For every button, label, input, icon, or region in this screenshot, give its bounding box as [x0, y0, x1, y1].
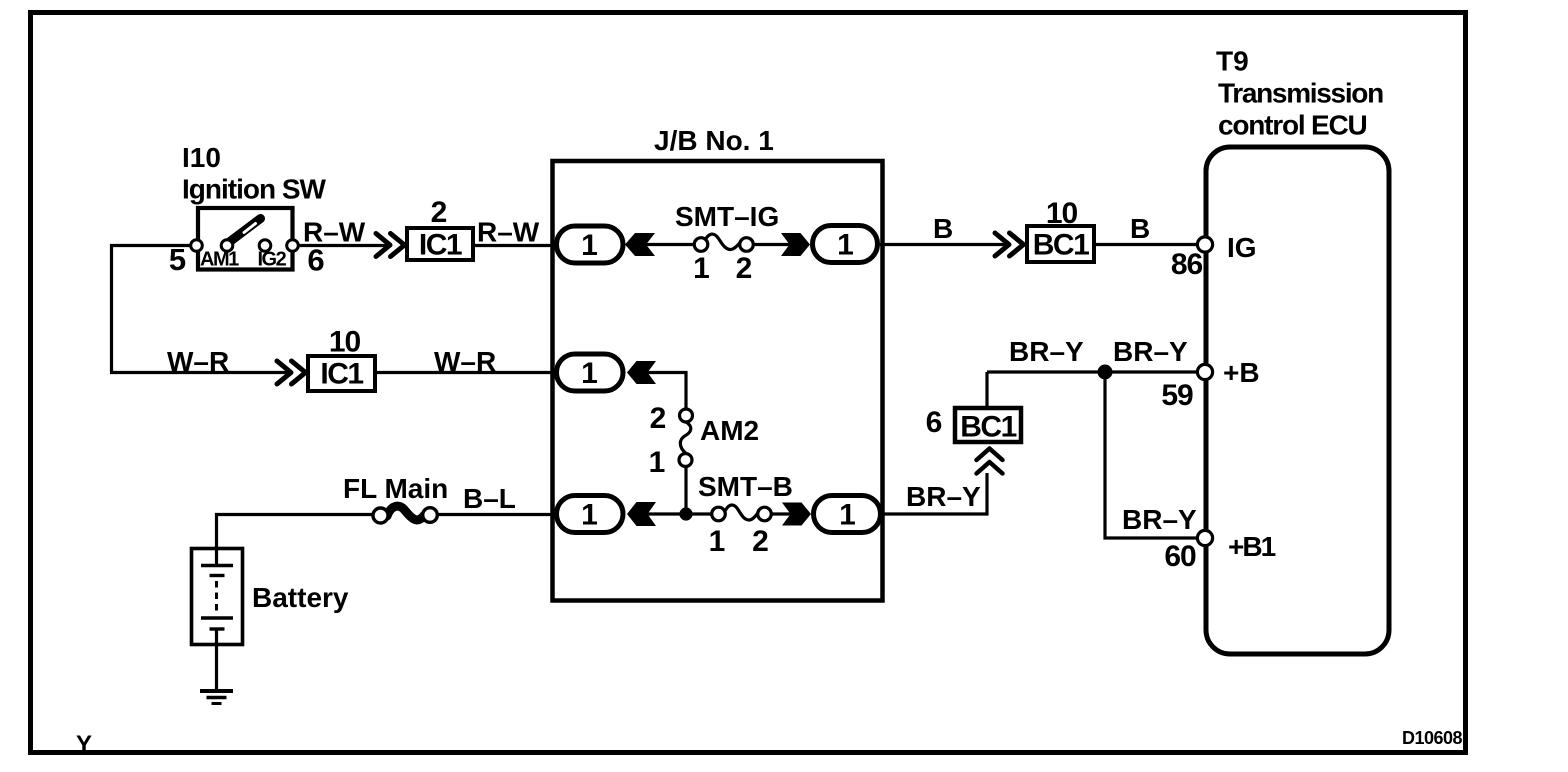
svg-text:J/B No. 1: J/B No. 1	[654, 125, 774, 156]
junction block J/B No. 1	[553, 161, 883, 601]
fuse SMT-IG	[694, 234, 753, 251]
svg-text:2: 2	[752, 525, 768, 558]
wire: J/B oval row3 to SMT-B fuse	[640, 512, 713, 515]
arrow into oval row1 left	[625, 233, 655, 256]
fusible link FL Main	[373, 506, 437, 523]
arrow into oval row3 left	[627, 502, 656, 526]
wire: BC1 connector to ECU pin IG (B)	[1094, 243, 1200, 246]
junction: BR-Y node	[1098, 365, 1113, 380]
svg-text:W–R: W–R	[167, 346, 229, 377]
switch terminal pin 6	[287, 240, 299, 252]
connector BC1 (6)	[955, 408, 1021, 444]
connector IC1 (row 2)	[308, 356, 375, 391]
fuse AM2	[679, 409, 693, 467]
wire: AM2 fuse to SMT-B junction	[684, 465, 687, 514]
connector BC1 (row 1)	[1027, 226, 1094, 262]
svg-text:1: 1	[581, 499, 597, 532]
svg-text:2: 2	[431, 196, 447, 229]
svg-text:2: 2	[650, 402, 666, 435]
svg-text:BR–Y: BR–Y	[1009, 336, 1084, 367]
wire: W-R from IC1 to J/B	[375, 371, 560, 374]
J/B connector oval (row 1 right)	[813, 226, 878, 263]
battery	[192, 549, 243, 645]
ECU T9 transmission control ECU body	[1206, 147, 1389, 654]
wire: switch IG2 to pin 6	[265, 244, 292, 247]
wire: battery negative to ground	[215, 629, 218, 690]
wire: J/B to BC1 connector 6 (BR-Y)	[880, 473, 987, 514]
svg-text:B: B	[933, 213, 953, 244]
svg-text:IG: IG	[1227, 232, 1257, 263]
svg-text:1: 1	[581, 229, 597, 262]
svg-text:IC1: IC1	[419, 229, 462, 262]
svg-text:T9: T9	[1216, 46, 1249, 77]
svg-text:D10608: D10608	[1402, 728, 1463, 748]
svg-text:W–R: W–R	[434, 346, 496, 377]
svg-text:5: 5	[169, 242, 186, 277]
wire: W-R row to IC1 connector	[110, 371, 290, 374]
connector chevron into IC1 (2)	[376, 234, 405, 257]
ground	[200, 691, 233, 704]
connector IC1 (row 1)	[407, 228, 473, 262]
connector chevron into BC1 (6) pointing up	[977, 449, 1003, 474]
svg-text:AM1: AM1	[200, 249, 239, 271]
wire: FL Main to J/B (B-L)	[436, 513, 560, 516]
switch lever	[228, 219, 261, 244]
svg-text:86: 86	[1171, 248, 1203, 281]
svg-text:1: 1	[709, 525, 725, 558]
ignition switch I10 body	[198, 208, 293, 270]
svg-text:60: 60	[1164, 540, 1196, 573]
svg-text:R–W: R–W	[303, 217, 366, 248]
svg-text:BC1: BC1	[960, 411, 1016, 444]
svg-text:10: 10	[329, 326, 361, 359]
connector chevron into BC1 (10)	[995, 233, 1024, 256]
arrow into oval row1 right	[781, 233, 810, 256]
junction: AM2 / SMT-B node	[679, 507, 692, 520]
wire: J/B to BC1 connector (B)	[880, 243, 1008, 246]
wire: switch pin 6 to IC1 connector (R-W)	[292, 244, 389, 247]
svg-text:6: 6	[926, 406, 942, 439]
svg-text:59: 59	[1161, 379, 1193, 412]
svg-text:+B1: +B1	[1228, 531, 1276, 562]
J/B connector oval (row 3 left)	[557, 496, 624, 533]
connector chevron into IC1 (10)	[277, 361, 306, 384]
switch terminal pin 5	[191, 240, 203, 252]
svg-text:B: B	[1130, 213, 1150, 244]
svg-text:+B: +B	[1223, 357, 1260, 388]
wire: ignition SW pin 5 left then down to W-R row	[112, 246, 197, 373]
switch terminal IG2	[259, 240, 271, 252]
wire: IC1 to J/B No.1 (R-W)	[473, 244, 560, 247]
svg-text:AM2: AM2	[700, 415, 759, 446]
wire: BC1 connector 6 up to BR-Y node	[985, 372, 988, 407]
svg-text:1: 1	[649, 446, 665, 479]
svg-text:IG2: IG2	[258, 249, 287, 271]
wire: BR-Y to ECU pin +B	[987, 370, 1200, 373]
svg-text:I10: I10	[182, 142, 221, 173]
svg-text:2: 2	[736, 252, 752, 285]
svg-text:SMT–B: SMT–B	[698, 471, 793, 502]
J/B connector oval 1 (row 1 left)	[557, 226, 624, 263]
svg-text:FL Main: FL Main	[343, 473, 448, 504]
svg-text:BC1: BC1	[1033, 229, 1089, 262]
svg-text:IC1: IC1	[320, 358, 363, 391]
svg-text:SMT–IG: SMT–IG	[675, 201, 779, 232]
svg-text:BR–Y: BR–Y	[906, 481, 981, 512]
svg-text:Y: Y	[76, 731, 92, 758]
svg-text:control ECU: control ECU	[1218, 110, 1367, 141]
svg-text:BR–Y: BR–Y	[1113, 336, 1188, 367]
svg-text:B–L: B–L	[463, 483, 516, 514]
J/B connector oval (row 3 right)	[814, 496, 881, 533]
wire: BR-Y node down to ECU pin +B1	[1105, 372, 1200, 538]
svg-text:1: 1	[839, 499, 855, 532]
ECU terminal IG	[1197, 237, 1212, 252]
svg-text:Ignition SW: Ignition SW	[182, 174, 327, 205]
svg-text:BR–Y: BR–Y	[1122, 504, 1197, 535]
svg-text:Battery: Battery	[252, 582, 349, 613]
J/B connector oval (row 2 left)	[557, 354, 624, 391]
wire: J/B oval row2 to AM2 fuse	[640, 373, 686, 411]
switch terminal AM1	[221, 240, 233, 252]
wire: battery to FL Main	[217, 515, 376, 567]
svg-text:1: 1	[581, 357, 597, 390]
fuse SMT-B	[712, 505, 772, 521]
ECU terminal +B1	[1197, 530, 1212, 545]
wire: J/B oval to SMT-IG fuse	[640, 243, 699, 246]
svg-text:1: 1	[693, 252, 709, 285]
svg-text:R–W: R–W	[477, 217, 540, 248]
wire: SMT-B fuse to J/B oval	[770, 512, 800, 515]
arrow into oval row3 right	[782, 503, 811, 526]
wire: switch pin 5 to AM1	[196, 244, 227, 247]
ECU terminal +B	[1197, 364, 1212, 379]
svg-text:6: 6	[307, 243, 324, 278]
svg-text:Transmission: Transmission	[1218, 78, 1383, 109]
wire: SMT-IG fuse to J/B oval	[749, 243, 800, 246]
arrow into oval row2 left	[627, 361, 656, 384]
svg-text:1: 1	[837, 229, 853, 262]
